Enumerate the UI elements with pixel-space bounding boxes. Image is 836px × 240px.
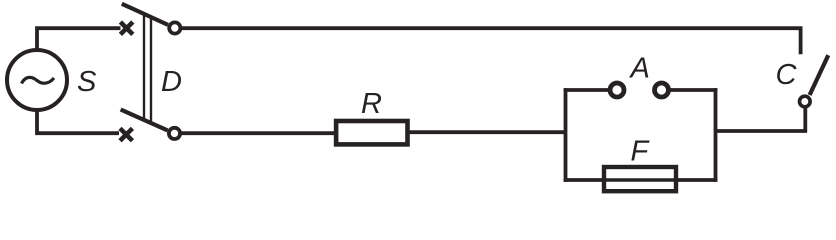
switch D bottom blade [121, 110, 168, 131]
tilde of source [22, 77, 55, 83]
wire source top to switch D [37, 28, 121, 50]
AC source S [7, 50, 67, 110]
top rail right of contact A [668, 88, 717, 92]
svg-text:R: R [361, 88, 382, 120]
wire down to C fixed terminal [799, 27, 803, 55]
wire source bottom to switch D [37, 110, 119, 133]
top rail left of contact A [564, 88, 611, 92]
switch D top pivot terminal [169, 22, 180, 33]
bottom rail through fuse F [564, 178, 718, 182]
top wire D to C [181, 26, 803, 30]
wire parallel group to switch C [714, 129, 807, 133]
switch C pivot terminal [800, 96, 811, 107]
svg-text:D: D [161, 66, 182, 98]
contact A right terminal [655, 83, 669, 97]
wire up to C pivot [803, 107, 807, 132]
wire R to parallel group [409, 130, 567, 134]
fuse F internal line [604, 178, 676, 182]
switch D top blade [122, 4, 168, 25]
parallel group right vertical [714, 88, 718, 182]
switch D linkage [143, 14, 145, 121]
fuse F body [604, 167, 676, 191]
svg-text:F: F [631, 136, 651, 168]
switch C blade [810, 55, 829, 95]
contact A left terminal [610, 83, 624, 97]
parallel group left vertical [564, 88, 568, 182]
svg-text:A: A [629, 53, 650, 85]
bottom wire D to resistor R [181, 131, 335, 135]
switch D top contact X [120, 22, 132, 34]
resistor R [336, 121, 407, 144]
switch D bottom contact X [120, 128, 132, 140]
switch D bottom pivot terminal [169, 128, 180, 139]
svg-text:S: S [77, 66, 97, 98]
svg-text:C: C [776, 59, 798, 91]
